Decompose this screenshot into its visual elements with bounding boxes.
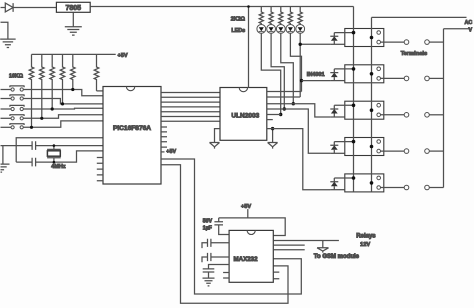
- ground under 7805: [65, 27, 82, 35]
- contact relay RL4 NO: [377, 149, 381, 153]
- wire C1 to PIC OSC1: [36, 145, 103, 147]
- capacitor C6 1uF: [203, 265, 229, 279]
- contact relay RL3 NC: [377, 103, 381, 107]
- LED D5: [286, 25, 295, 34]
- ground ULN left: [210, 143, 220, 149]
- junction SW3/R3: [51, 107, 54, 110]
- svg-text:V: V: [469, 28, 473, 34]
- junction SW4/R2: [40, 117, 43, 120]
- relay RL5 body: [345, 174, 384, 192]
- svg-text:+5V: +5V: [118, 53, 128, 59]
- contact relay RL3 NO: [377, 113, 381, 117]
- wire ground branch OSC: [1, 146, 33, 165]
- resistor R8 2K2: [269, 7, 273, 25]
- junction ULN pin5: [279, 113, 282, 116]
- wire diode D8 top to coil: [334, 68, 353, 70]
- wire AC supply input: [1, 7, 6, 9]
- junction relay2 feed: [300, 79, 303, 82]
- ground oscillator: [1, 164, 10, 172]
- wire SW3 to PIC RB2: [23, 107, 103, 110]
- terminal T4a: [404, 149, 409, 154]
- wire C2 left lead: [16, 161, 32, 163]
- svg-text:ULN2003: ULN2003: [231, 113, 259, 120]
- svg-text:AC: AC: [465, 20, 473, 26]
- pin stubs MAX232 left: [223, 273, 229, 279]
- junction relay RL3 common: [370, 108, 374, 112]
- wire ULN pin8 ground lead left: [215, 129, 221, 143]
- terminal T1a: [404, 40, 409, 45]
- wire 7805 ground lead: [72, 12, 74, 26]
- wire relay RL4 output: [381, 150, 405, 152]
- node +5V rail: [32, 53, 116, 55]
- wire relay RL5 coil input: [330, 189, 344, 191]
- wire PIC VSS to oscillator common: [16, 138, 103, 162]
- svg-text:1µF: 1µF: [203, 225, 212, 231]
- diode D11 IN4001 relay 5: [330, 178, 338, 182]
- resistor R11 2K2: [298, 7, 302, 25]
- regulator U4 7805: [56, 2, 90, 12]
- ground ULN right: [268, 143, 278, 149]
- capacitor C4 1uF: [202, 239, 229, 248]
- diode D1: [5, 3, 13, 12]
- wire MAX232 to GSM line 1: [273, 240, 339, 242]
- wire LED5 cathode to relay RL1 and ULN pin 2: [300, 33, 330, 97]
- svg-text:12V: 12V: [360, 242, 370, 248]
- wire relay RL2 coil input: [330, 80, 344, 82]
- wire C2 to PIC OSC2: [36, 151, 103, 162]
- wire PIC TX to MAX232: [161, 159, 301, 294]
- contact relay RL5 NO: [377, 186, 381, 190]
- contact relay RL2 NO: [377, 77, 381, 81]
- rail terminals to V: [443, 29, 445, 188]
- wire diode D10 top to coil: [334, 141, 353, 143]
- LED D3: [267, 25, 276, 34]
- wire diode D9 top to coil: [334, 104, 353, 106]
- relay RL4 body: [345, 138, 384, 156]
- resistor R3 10K: [50, 54, 55, 109]
- wire relay RL1 coil input: [330, 43, 344, 45]
- relay RL1 body: [345, 29, 384, 47]
- pin stubs PIC left lower: [97, 158, 103, 181]
- resistor R1 10K: [29, 54, 34, 127]
- junction relay RL1 common: [370, 36, 374, 40]
- svg-text:Relays: Relays: [356, 234, 376, 240]
- wire LED2 cathode to ULN pin4 node: [271, 33, 284, 109]
- wire PIC to ULN2003 input 6: [161, 116, 220, 118]
- wire +12V rail to ULN COM pin 9: [248, 7, 250, 88]
- rail relay common: [371, 17, 373, 192]
- wire relay RL4 coil input: [330, 152, 344, 154]
- junction LED5/relay1: [299, 43, 302, 46]
- relay RL3 body: [345, 101, 384, 119]
- switch SW5: [1, 126, 12, 128]
- svg-text:IN4001: IN4001: [307, 72, 325, 78]
- wire LED4 cathode to relay RL2 node: [290, 33, 301, 91]
- svg-text:PIC16F876A: PIC16F876A: [113, 125, 151, 132]
- resistor R4 10K: [60, 54, 65, 104]
- wire relay RL2 feed: [302, 80, 331, 82]
- switch SW4: [1, 117, 12, 119]
- contact relay RL2 NC: [377, 67, 381, 71]
- wire R6 to PIC MCLR pin 1: [97, 90, 104, 92]
- wire V line: [444, 28, 470, 30]
- driver U2 ULN2003: [220, 88, 267, 141]
- wire relay RL3 coil input: [330, 116, 344, 118]
- capacitor C1 22pF: [32, 141, 36, 150]
- ground GSM signal: [317, 248, 329, 253]
- wire PIC to ULN2003 input 3: [161, 101, 220, 103]
- wire AC line: [372, 16, 467, 18]
- junction crystal top: [53, 144, 56, 147]
- resistor R9 2K2: [279, 7, 283, 25]
- wire GSM ground lead: [322, 241, 324, 248]
- junction SW5/R1: [30, 126, 33, 129]
- switch SW2: [1, 98, 12, 100]
- resistor R7 2K2: [259, 7, 263, 25]
- resistor R2 10K: [40, 54, 45, 118]
- terminal T2a: [404, 76, 409, 81]
- wire diode D7 top to coil: [334, 32, 353, 34]
- switch SW1: [1, 89, 12, 91]
- svg-text:+5V: +5V: [166, 149, 176, 155]
- wire MAX232 to GSM line 2: [273, 244, 304, 246]
- microcontroller U1 PIC16F876A: [103, 87, 161, 185]
- contact relay RL5 NC: [377, 176, 381, 180]
- diode D9 IN4001 relay 3: [330, 105, 338, 109]
- LED D4: [276, 25, 285, 34]
- wire ULN pin2 output: [267, 96, 300, 98]
- wire relay RL3 output: [381, 114, 405, 116]
- wire ULN pin6 stub: [267, 119, 273, 121]
- junction relay RL3 +12V: [352, 104, 356, 108]
- wire PIC to ULN2003 input 2: [161, 96, 220, 98]
- wire 7805 output to +12V rail: [90, 6, 353, 8]
- wire terminal T3b to V rail: [429, 114, 443, 116]
- wire SW5 to PIC RB4: [23, 121, 103, 127]
- wire relay RL2 output: [381, 77, 405, 79]
- wire diode D11 top to coil: [334, 177, 353, 179]
- junction relay RL2 +12V: [352, 67, 356, 71]
- transceiver U3 MAX232: [229, 230, 273, 282]
- terminal T5a: [404, 185, 409, 190]
- svg-text:7805: 7805: [66, 5, 82, 12]
- wire ULN pin5 output: [267, 114, 281, 116]
- wire ULN pin4 output to relay RL4: [267, 109, 331, 153]
- wire PIC to ULN2003 input 5: [161, 111, 220, 113]
- junction relay RL1 +12V: [352, 31, 356, 35]
- wire PIC to ULN2003 input 4: [161, 106, 220, 108]
- wire LED1 cathode to ULN pin5 node: [261, 33, 280, 114]
- wire SW4 to PIC RB3: [23, 115, 103, 119]
- contact relay RL4 NC: [377, 140, 381, 144]
- wire PIC to ULN2003 input 7: [161, 120, 220, 122]
- relay RL2 body: [345, 65, 384, 83]
- junction +12V rail ULN: [247, 5, 250, 8]
- terminal T3a: [404, 113, 409, 118]
- terminal T4b: [425, 149, 430, 154]
- svg-text:2K2Ω: 2K2Ω: [231, 17, 246, 23]
- wire ULN ground lead right: [272, 129, 274, 143]
- wire MAX232 to GSM line 3: [273, 249, 304, 251]
- resistor R5 10K: [71, 54, 76, 89]
- junction relay RL5 +12V: [352, 176, 356, 180]
- junction relay RL4 +12V: [352, 140, 356, 144]
- wire terminal T2b to V rail: [429, 77, 443, 79]
- resistor R10 2K2: [288, 7, 292, 25]
- crystal X1 4MHz: [47, 146, 61, 163]
- junction relay RL4 common: [370, 145, 374, 149]
- terminal T1b: [425, 40, 430, 45]
- wire SW1 to PIC RB0: [23, 90, 103, 96]
- wire +5V rail MAX232: [219, 218, 286, 236]
- wire SW2 to PIC RB1: [23, 99, 103, 104]
- terminal T3b: [425, 113, 430, 118]
- wire ULN pin1 output: [267, 91, 302, 93]
- pin stubs PIC right middle: [161, 127, 167, 147]
- junction SW1/R5: [71, 88, 74, 91]
- junction ULN pin3: [292, 102, 295, 105]
- wire to left ground: [1, 22, 8, 39]
- svg-text:50V: 50V: [203, 219, 213, 225]
- wire terminal T4b to V rail: [429, 150, 443, 152]
- contact relay RL1 NC: [377, 31, 381, 35]
- svg-text:LEDs: LEDs: [231, 28, 245, 34]
- wire ULN pin3 output to relay RL3: [267, 104, 331, 117]
- wire terminal T5b to V rail: [429, 187, 443, 189]
- wire LED3 cathode to ULN pin3 node: [281, 33, 294, 103]
- pin stubs MAX232 right: [273, 272, 279, 279]
- wire ULN pin7 output to relay RL5: [267, 129, 331, 190]
- terminal T5b: [425, 185, 430, 190]
- junction ULN pin4: [283, 107, 286, 110]
- ground left input: [0, 39, 16, 47]
- svg-text:4MHz: 4MHz: [51, 164, 66, 170]
- ground MAX232: [203, 278, 215, 286]
- svg-text:Terminals: Terminals: [401, 51, 427, 57]
- wire terminal T1b to V rail: [429, 41, 443, 43]
- LED D2: [257, 25, 266, 34]
- capacitor C5 1uF: [202, 253, 229, 262]
- wire D1 to 7805: [13, 7, 56, 9]
- capacitor C3 1uF 50V: [214, 222, 223, 225]
- wire C3 to MAX232 pin: [219, 225, 229, 235]
- contact relay RL1 NO: [377, 40, 381, 44]
- svg-text:10KΩ: 10KΩ: [9, 73, 24, 79]
- junction crystal bottom: [53, 161, 56, 164]
- rail +12V relays: [353, 7, 355, 192]
- diode D7 IN4001 relay 1: [330, 33, 338, 37]
- resistor R6 10K MCLR pull-up: [94, 54, 99, 91]
- junction relay RL5 common: [370, 181, 374, 185]
- junction ULN ground right: [271, 127, 274, 130]
- capacitor C2 22pF: [32, 158, 36, 167]
- junction relay RL2 common: [370, 72, 374, 76]
- svg-text:+5V: +5V: [241, 204, 251, 210]
- svg-text:To GSM module: To GSM module: [314, 254, 360, 260]
- terminal T2b: [425, 76, 430, 81]
- switch SW3: [1, 108, 12, 110]
- wire relay RL1 output: [381, 41, 405, 43]
- wire PIC RX to MAX232: [161, 165, 288, 304]
- junction SW2/R4: [61, 102, 64, 105]
- diode D10 IN4001 relay 4: [330, 142, 338, 146]
- wire PIC to ULN2003 input 1: [161, 92, 220, 94]
- node +5V PIC VDD: [161, 151, 165, 153]
- wire relay RL5 output: [381, 187, 405, 189]
- LED D6: [296, 25, 305, 34]
- diode D8 IN4001 relay 2: [330, 69, 338, 73]
- svg-text:MAX232: MAX232: [233, 256, 258, 263]
